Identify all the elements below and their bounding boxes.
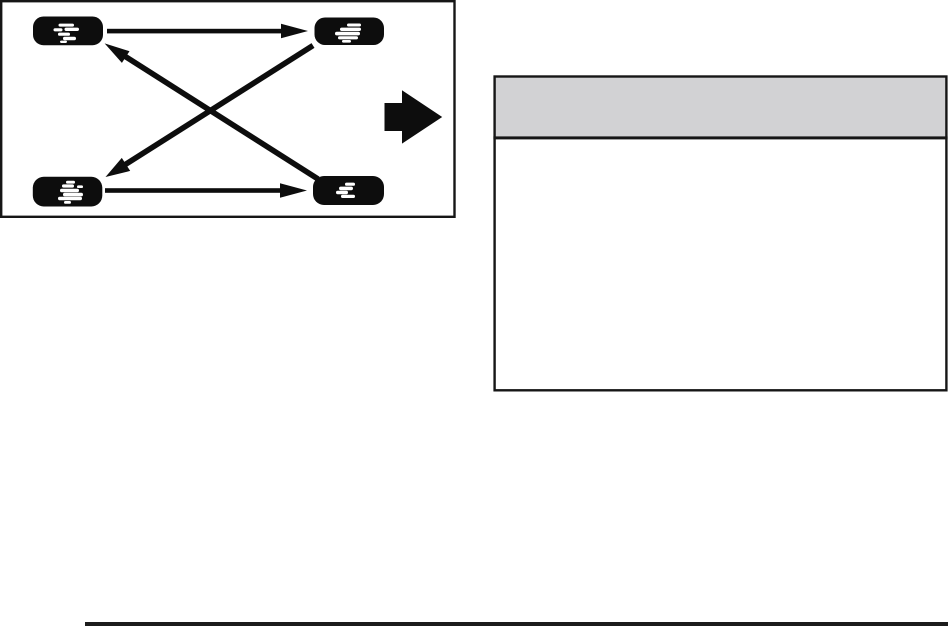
table header fill (gray)	[495, 77, 947, 138]
table outer frame	[495, 77, 947, 391]
tire RF (top-right)	[315, 18, 385, 46]
big block arrow (points right)	[385, 90, 443, 143]
figure frame (tire rotation diagram box)	[1, 1, 454, 217]
tire LF (top-left)	[33, 17, 103, 46]
table header separator	[493, 136, 947, 139]
footer rule	[85, 622, 948, 626]
tire LR (bottom-left)	[33, 177, 103, 207]
arrow RF to LR (diagonal down-left)	[106, 46, 314, 178]
tire RR (bottom-right)	[313, 176, 384, 205]
arrow LF to RF (top horizontal)	[107, 24, 308, 38]
arrow RR to LF (diagonal up-left)	[105, 43, 318, 179]
arrow LR to RR (bottom horizontal)	[105, 183, 307, 197]
